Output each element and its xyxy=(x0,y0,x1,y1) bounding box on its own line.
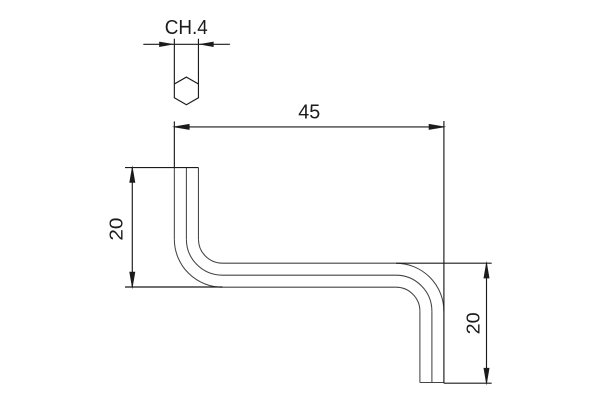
arrow 20-right bottom (points down) xyxy=(484,368,490,386)
extension top right xyxy=(396,262,492,264)
arrow 20-left top (points up) xyxy=(129,165,135,183)
wire: lower stub left edge xyxy=(419,311,421,382)
wire: right bend outer arc xyxy=(396,263,444,311)
wire: horizontal middle edge xyxy=(222,274,395,276)
arrow 45 right (points right) xyxy=(429,124,447,130)
wire: left bend outer arc xyxy=(174,239,222,287)
wire: right bend middle arc xyxy=(396,275,432,311)
arrow 45 left (points left) xyxy=(172,124,190,130)
arrow CH.4 left (points right) xyxy=(159,42,174,47)
dim 45 line xyxy=(174,126,444,128)
wire: lower stub end cap xyxy=(420,382,444,384)
extension top cap xyxy=(125,167,198,169)
svg-text:CH.4: CH.4 xyxy=(165,17,208,39)
extension bottom right xyxy=(444,382,492,384)
arrow 20-right top (points up) xyxy=(484,261,490,279)
witness line CH.4 right xyxy=(197,39,199,84)
wire: horizontal bottom edge xyxy=(222,286,395,288)
extension bottom left xyxy=(125,286,222,288)
witness line CH.4 left xyxy=(173,39,175,84)
wire: horizontal top edge xyxy=(222,262,395,264)
wire: upper stub right edge xyxy=(197,168,199,240)
wire: lower stub middle edge xyxy=(431,311,433,382)
svg-text:20: 20 xyxy=(462,312,483,334)
wire: upper stub left edge xyxy=(173,168,175,240)
svg-text:20: 20 xyxy=(106,218,127,241)
hex end view xyxy=(174,77,198,105)
arrow 20-left bottom (points down) xyxy=(129,272,135,290)
svg-text:45: 45 xyxy=(298,102,320,124)
wire: upper stub middle edge xyxy=(185,168,187,240)
dim 20 right line xyxy=(486,263,488,383)
wire: left bend middle arc xyxy=(186,239,222,275)
arrow CH.4 right (points left) xyxy=(198,42,213,47)
dim CH.4 line xyxy=(143,43,230,45)
wire: left bend inner arc xyxy=(198,239,222,263)
wire: right bend inner arc xyxy=(396,287,420,311)
extension right for 45 (runs down whole right edge) xyxy=(443,121,445,383)
extension left for 45 xyxy=(173,121,175,167)
dim 20 left line xyxy=(131,168,133,287)
